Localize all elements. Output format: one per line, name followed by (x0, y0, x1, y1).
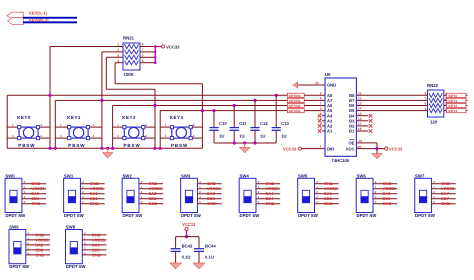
svg-text:5: 5 (425, 107, 427, 111)
svg-text:GND: GND (327, 83, 336, 88)
svg-text:5: 5 (320, 112, 322, 116)
svg-text:SW9: SW9 (66, 225, 76, 230)
svg-text:3: 3 (12, 134, 14, 138)
svg-text:SW4: SW4 (239, 173, 249, 178)
svg-text:C10: C10 (219, 121, 227, 126)
svg-text:4: 4 (117, 59, 119, 63)
svg-text:GND: GND (90, 201, 99, 206)
svg-text:2: 2 (193, 123, 195, 127)
svg-text:KEY3: KEY3 (170, 115, 184, 120)
svg-text:DPDT SW: DPDT SW (239, 213, 260, 218)
svg-text:GND: GND (92, 252, 101, 257)
svg-text:7: 7 (320, 102, 322, 106)
svg-text:VCC33: VCC33 (182, 222, 196, 227)
svg-text:KEY[0..3]: KEY[0..3] (29, 11, 47, 16)
svg-text:1: 1 (12, 123, 14, 127)
svg-text:18: 18 (358, 127, 362, 131)
svg-text:1: 1 (320, 145, 322, 149)
svg-text:SW1: SW1 (64, 173, 74, 178)
svg-text:6: 6 (320, 107, 322, 111)
svg-text:9: 9 (320, 91, 322, 95)
svg-text:RN21: RN21 (123, 36, 135, 41)
svg-text:B1: B1 (349, 129, 355, 134)
svg-text:KEY2: KEY2 (449, 104, 458, 108)
svg-text:2: 2 (320, 127, 322, 131)
svg-text:BC44: BC44 (205, 244, 216, 249)
svg-text:4: 4 (320, 117, 322, 121)
svg-text:6: 6 (425, 102, 427, 106)
svg-text:KEY1: KEY1 (449, 99, 458, 103)
svg-text:0.1U: 0.1U (182, 255, 191, 260)
svg-text:20: 20 (358, 145, 362, 149)
svg-text:DPDT SW: DPDT SW (9, 264, 30, 269)
svg-text:KEY0: KEY0 (17, 115, 31, 120)
svg-text:SW6: SW6 (357, 173, 367, 178)
svg-text:3: 3 (117, 134, 119, 138)
svg-text:GND: GND (383, 201, 392, 206)
svg-text:4: 4 (41, 134, 43, 138)
svg-text:4: 4 (146, 134, 148, 138)
svg-text:DPDT SW: DPDT SW (66, 264, 87, 269)
svg-text:5: 5 (142, 59, 144, 63)
svg-text:DPDT SW: DPDT SW (181, 213, 202, 218)
svg-text:KEYIN3: KEYIN3 (289, 109, 301, 113)
svg-text:KEY0: KEY0 (449, 94, 458, 98)
svg-text:1: 1 (165, 123, 167, 127)
svg-text:GND: GND (265, 201, 274, 206)
svg-text:3: 3 (165, 134, 167, 138)
svg-text:7: 7 (142, 48, 144, 52)
svg-text:120: 120 (430, 119, 438, 124)
svg-text:4: 4 (92, 134, 94, 138)
svg-text:100K: 100K (124, 72, 135, 77)
svg-text:10: 10 (315, 81, 319, 85)
svg-text:2: 2 (92, 123, 94, 127)
svg-text:PBSW: PBSW (171, 143, 188, 148)
svg-text:SW3: SW3 (181, 173, 191, 178)
svg-text:PBSW: PBSW (68, 143, 85, 148)
svg-text:3: 3 (60, 134, 62, 138)
svg-text:GND: GND (324, 201, 333, 206)
svg-text:VCC: VCC (346, 146, 355, 151)
svg-text:BC43: BC43 (182, 244, 193, 249)
svg-text:1: 1 (117, 43, 119, 47)
svg-text:1U: 1U (239, 134, 244, 139)
svg-text:GND: GND (207, 201, 216, 206)
svg-text:DPDT SW: DPDT SW (64, 213, 85, 218)
svg-text:KEYIN[0..3]: KEYIN[0..3] (29, 19, 48, 23)
svg-text:VCC33: VCC33 (389, 146, 403, 151)
svg-text:KEYIN1: KEYIN1 (289, 99, 301, 103)
svg-text:2: 2 (146, 123, 148, 127)
svg-text:DIR: DIR (327, 146, 334, 151)
svg-text:OE: OE (348, 141, 354, 146)
svg-text:C12: C12 (260, 121, 268, 126)
svg-text:6: 6 (142, 54, 144, 58)
svg-text:GND: GND (31, 201, 40, 206)
svg-text:GND: GND (441, 201, 450, 206)
svg-text:DPDT SW: DPDT SW (122, 213, 143, 218)
svg-text:RN22: RN22 (427, 83, 439, 88)
svg-text:16: 16 (358, 117, 362, 121)
svg-text:1U: 1U (281, 134, 286, 139)
svg-text:KEYIN0: KEYIN0 (289, 94, 301, 98)
svg-text:PBSW: PBSW (124, 143, 141, 148)
svg-text:0.1U: 0.1U (205, 255, 214, 260)
svg-text:7: 7 (425, 97, 427, 101)
svg-text:PBSW: PBSW (18, 143, 35, 148)
svg-text:VCC33: VCC33 (166, 44, 180, 49)
svg-text:1: 1 (117, 123, 119, 127)
svg-text:2: 2 (41, 123, 43, 127)
svg-text:74HC245: 74HC245 (332, 158, 350, 163)
svg-text:19: 19 (359, 139, 363, 143)
svg-text:8: 8 (142, 43, 144, 47)
svg-text:SW2: SW2 (122, 173, 132, 178)
svg-text:C13: C13 (281, 121, 289, 126)
svg-text:12: 12 (358, 97, 362, 101)
svg-text:8: 8 (425, 92, 427, 96)
svg-text:C11: C11 (239, 121, 247, 126)
svg-text:KEYIN2: KEYIN2 (289, 104, 301, 108)
svg-text:11: 11 (358, 91, 362, 95)
svg-text:U6: U6 (325, 72, 331, 77)
svg-text:4: 4 (193, 134, 195, 138)
svg-text:KEY1: KEY1 (67, 115, 81, 120)
svg-text:VCC33: VCC33 (283, 146, 297, 151)
svg-text:GND: GND (148, 201, 157, 206)
svg-text:SW5: SW5 (298, 173, 308, 178)
svg-text:17: 17 (358, 122, 362, 126)
svg-text:GND: GND (35, 252, 44, 257)
svg-text:SW8: SW8 (9, 225, 19, 230)
svg-text:14: 14 (358, 107, 362, 111)
svg-text:3: 3 (320, 122, 322, 126)
svg-text:SW0: SW0 (5, 173, 15, 178)
svg-text:DPDT SW: DPDT SW (357, 213, 378, 218)
svg-text:1U: 1U (260, 134, 265, 139)
svg-text:A1: A1 (327, 129, 333, 134)
svg-text:DPDT SW: DPDT SW (415, 213, 436, 218)
svg-text:3: 3 (117, 54, 119, 58)
svg-text:13: 13 (358, 102, 362, 106)
svg-text:SW7: SW7 (415, 173, 425, 178)
svg-text:DPDT SW: DPDT SW (298, 213, 319, 218)
svg-text:KEY2: KEY2 (122, 115, 136, 120)
svg-text:15: 15 (358, 112, 362, 116)
svg-text:8: 8 (320, 97, 322, 101)
svg-text:KEY3: KEY3 (449, 109, 458, 113)
svg-text:2: 2 (117, 48, 119, 52)
svg-text:1U: 1U (219, 134, 224, 139)
svg-text:1: 1 (60, 123, 62, 127)
svg-text:DPDT SW: DPDT SW (5, 213, 26, 218)
